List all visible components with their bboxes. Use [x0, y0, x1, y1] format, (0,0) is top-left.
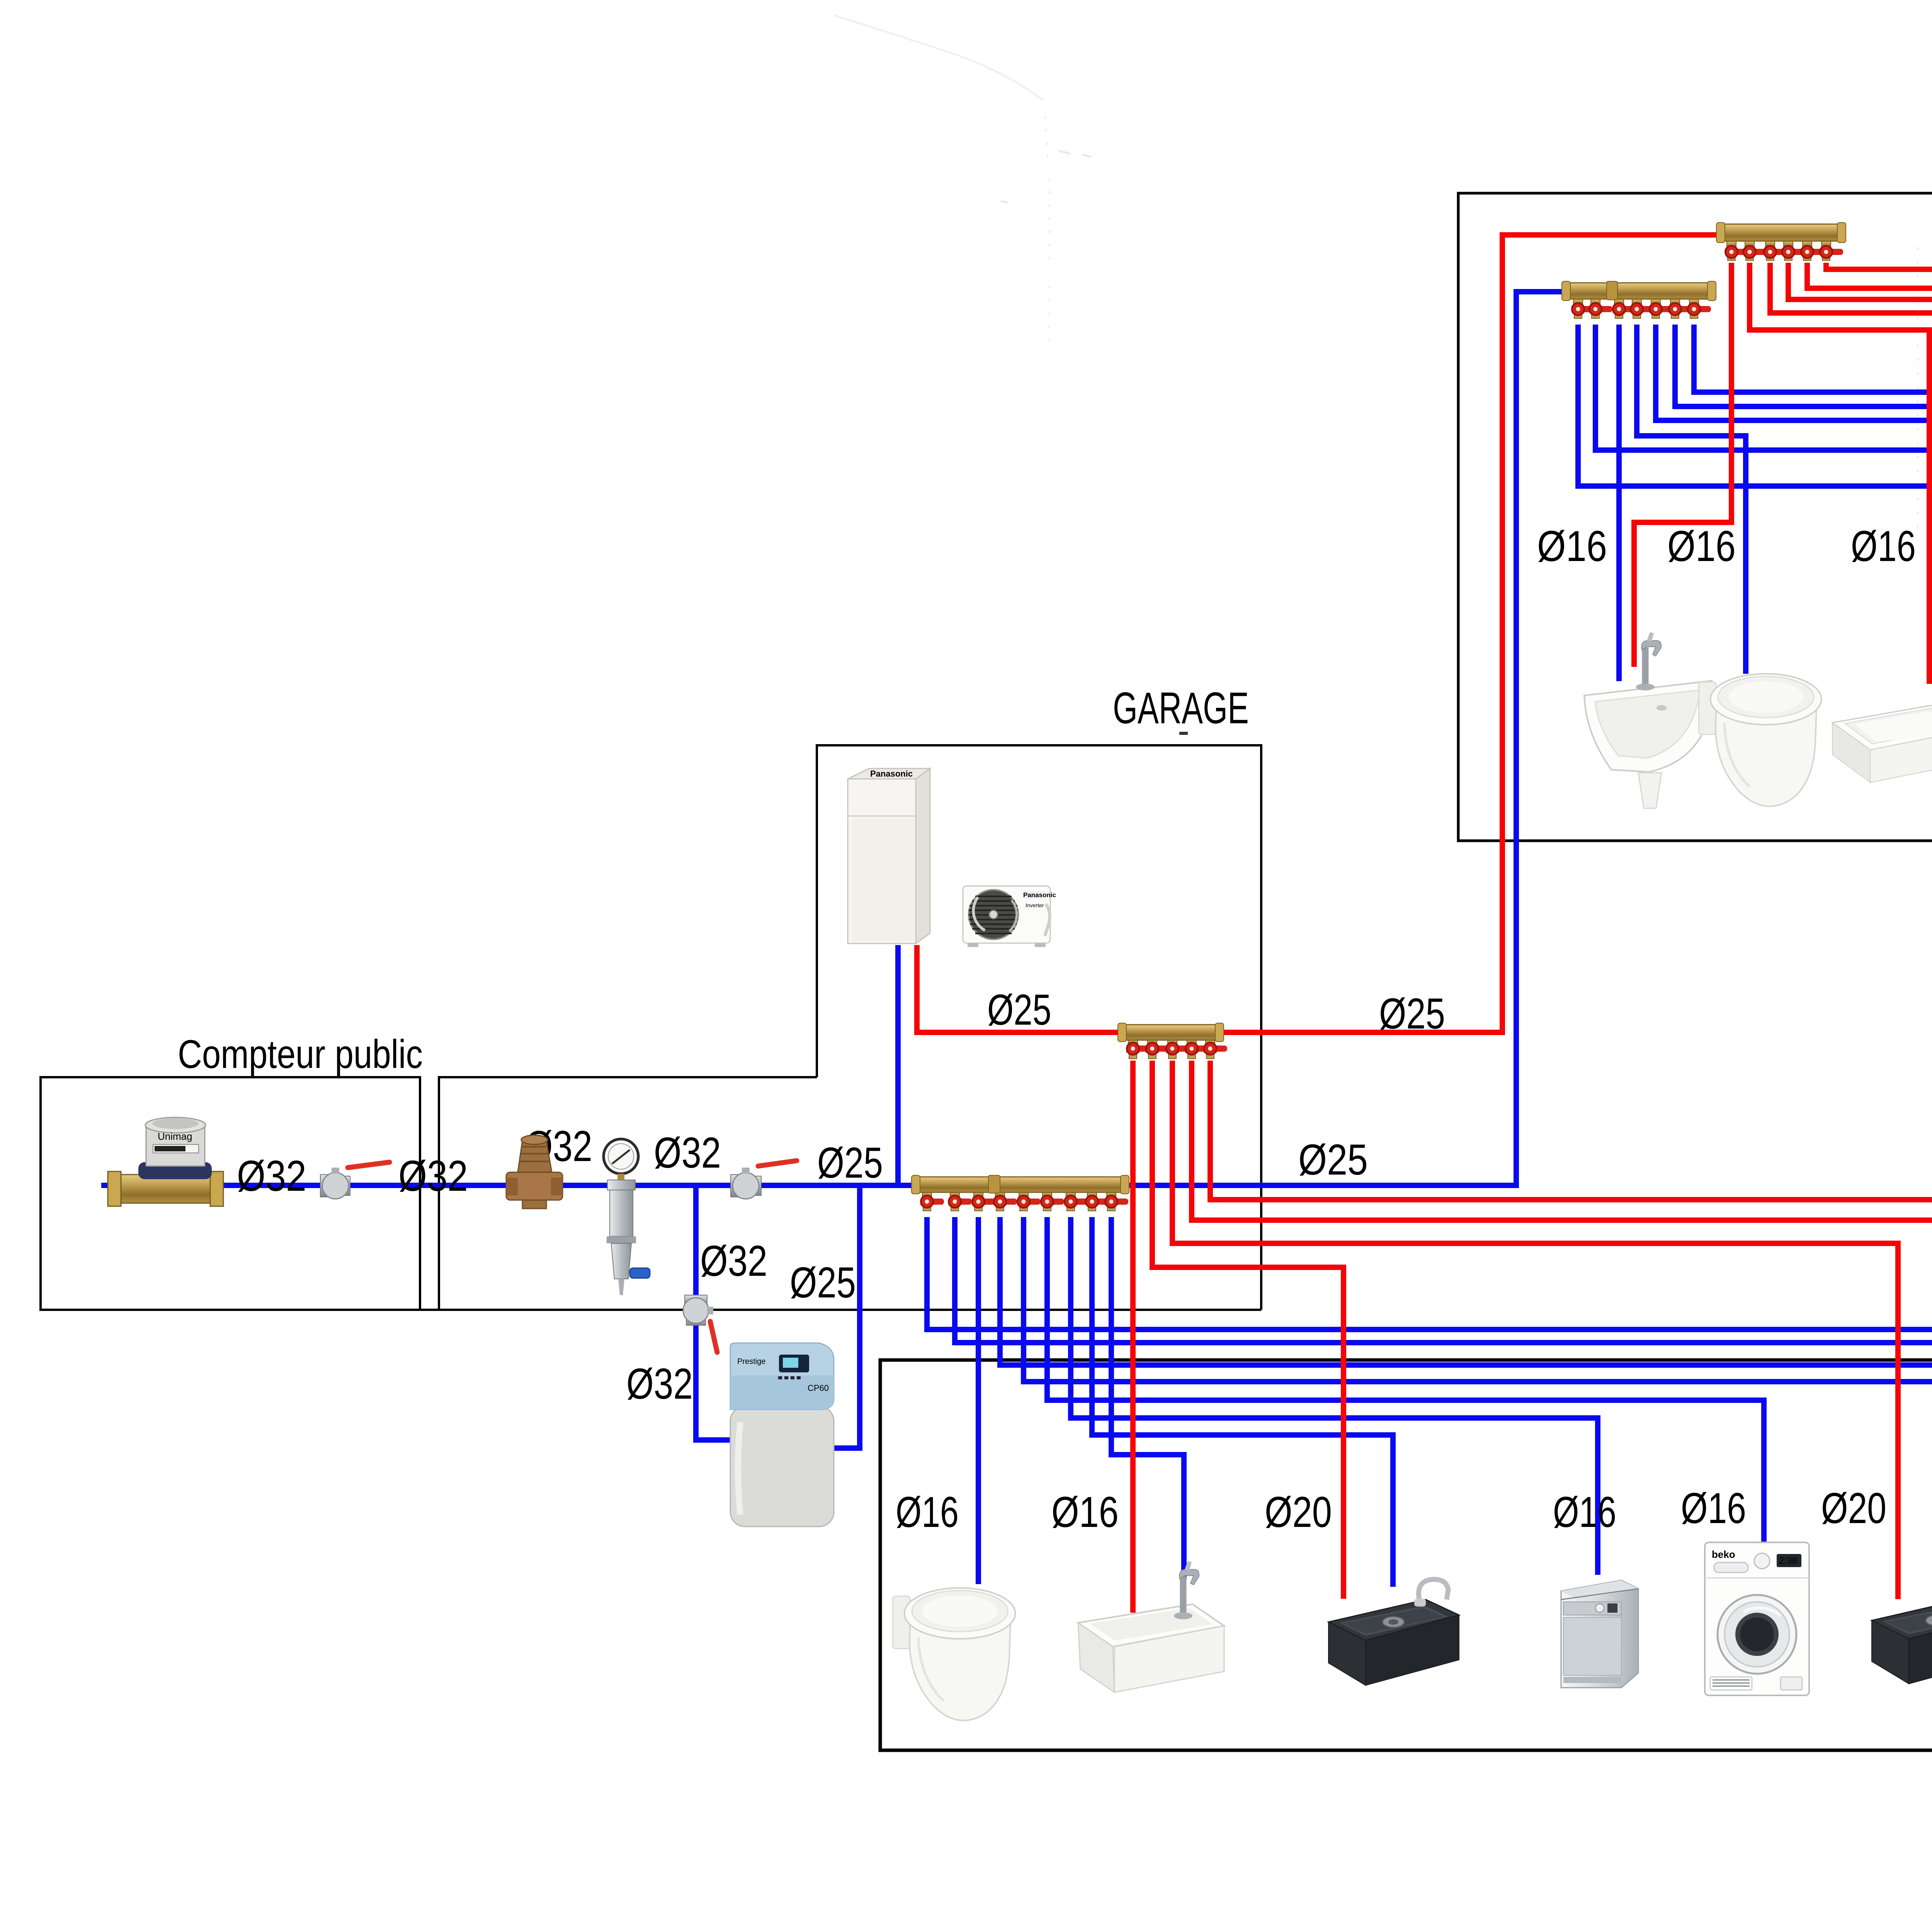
- wire: R-1 red drop 3 to shower F4: [1770, 263, 1932, 605]
- box filtration: [439, 1077, 817, 1310]
- wire: garage manifold drop 5 to RDC dark sink 2: [1024, 1217, 1932, 1599]
- RDC dark sink 1: [1328, 1579, 1459, 1685]
- box R-1: [1458, 193, 1932, 841]
- wire: garage manifold drop 6 to RDC dryer 1: [1047, 1217, 1764, 1542]
- R-1 blue manifold (7 outlets): [1562, 281, 1716, 318]
- wire: garage red drop 3 to RDC dark sink 2: [1172, 1061, 1898, 1599]
- svg-text:Ø16: Ø16: [1851, 522, 1916, 570]
- svg-text:Ø25: Ø25: [790, 1258, 856, 1307]
- wire: R-1 red drop 6 to washbasin F7: [1826, 263, 1932, 665]
- wire: R-1 manifold drop 4 to toilet F2: [1637, 325, 1746, 674]
- svg-text:Ø25: Ø25: [1379, 989, 1445, 1038]
- RDC dishwasher: [1561, 1580, 1638, 1688]
- svg-text:Ø32: Ø32: [626, 1360, 693, 1408]
- wire: cold riser to heat pump: [895, 945, 901, 1185]
- R-1 corner sink F1: [1584, 632, 1712, 808]
- R-1 toilet F2: [1699, 674, 1821, 806]
- box GARAGE: [41, 745, 1261, 1310]
- wire: garage manifold drop 8 to RDC dark sink 1: [1092, 1217, 1393, 1587]
- svg-text:GARAGE: GARAGE: [1113, 683, 1249, 733]
- wire: R-1 manifold drop 3 to corner sink F1: [1616, 325, 1622, 681]
- R-1 washbasin F3: [1832, 693, 1932, 782]
- wire: garage manifold drop 2 to RDC washbasin right: [955, 1217, 1932, 1561]
- wire: garage red drop 4 to RDC washbasin right: [1192, 1061, 1932, 1561]
- wire: R-1 manifold drop 2 to shower F6: [1595, 325, 1932, 581]
- svg-text:Ø16: Ø16: [1667, 522, 1736, 570]
- pressure reducer: [506, 1135, 563, 1209]
- wire: garage manifold drop 4 to RDC dryer 2: [1000, 1217, 1932, 1542]
- svg-text:Ø16: Ø16: [896, 1488, 959, 1536]
- svg-text:Ø20: Ø20: [1265, 1488, 1332, 1536]
- svg-text:Ø25: Ø25: [987, 986, 1051, 1034]
- wire: R-1 manifold drop 6 to shower F4: [1675, 325, 1932, 605]
- svg-text:Ø20: Ø20: [1821, 1484, 1886, 1532]
- wire: R-1 manifold drop 7 to bathtub F5: [1694, 325, 1932, 668]
- garage red manifold (5 outlets): [1118, 1023, 1227, 1059]
- svg-text:Ø16: Ø16: [1051, 1488, 1119, 1536]
- svg-text:Unimag: Unimag: [158, 1131, 192, 1142]
- ball valve 3 (vertical, softener branch): [683, 1295, 717, 1352]
- wire: R-1 red drop 4 to bathtub F5: [1788, 263, 1932, 676]
- faint sketch marks top: [835, 15, 1043, 100]
- svg-text:Inverter: Inverter: [1026, 902, 1044, 908]
- RDC toilet: [893, 1588, 1015, 1720]
- wire: garage manifold drop 3 to RDC toilet: [976, 1217, 981, 1584]
- filter with gauge: [604, 1139, 650, 1295]
- wire: R-1 manifold drop 5 to washbasin F3: [1656, 325, 1932, 680]
- RDC washbasin left: [1078, 1561, 1224, 1692]
- wire: softener outlet back up to main: [830, 1185, 860, 1448]
- heat pump outdoor unit: [963, 886, 1056, 947]
- wire: R-1 red drop 5 to shower F6: [1807, 263, 1932, 605]
- svg-text:Ø32: Ø32: [398, 1152, 468, 1200]
- wire: garage red drop 2 to RDC dark sink 1: [1152, 1061, 1344, 1599]
- water meter: [108, 1117, 223, 1206]
- svg-text:Ø32: Ø32: [237, 1152, 306, 1200]
- svg-text:Compteur public: Compteur public: [178, 1032, 423, 1077]
- svg-text:Ø25: Ø25: [817, 1139, 883, 1187]
- garage blue manifold (9 outlets): [912, 1175, 1129, 1211]
- svg-text:Panasonic: Panasonic: [1023, 891, 1056, 899]
- wire: R-1 red drop 2 to washbasin F3: [1750, 263, 1929, 684]
- box Compteur public: [41, 1077, 420, 1310]
- wire: R-1 red drop 1 to corner sink F1: [1634, 263, 1731, 667]
- box RDC: [880, 1360, 1932, 1750]
- wire: hot from garage manifold right end up to R-1 red manifold: [1219, 235, 1720, 1032]
- wire: garage manifold drop 7 to RDC dishwasher: [1071, 1217, 1598, 1575]
- wire: hot from heat pump to garage red manifold: [917, 945, 1122, 1032]
- wire: garage manifold drop 1 to RDC shower: [927, 1217, 1932, 1476]
- wire: cold main from meter through valves/filter to garage manifold and up to R-1: [101, 292, 1564, 1185]
- svg-text:Ø32: Ø32: [654, 1129, 721, 1177]
- heat pump indoor unit: [848, 768, 930, 944]
- svg-text:CP60: CP60: [808, 1383, 829, 1393]
- ball valve 2: [731, 1161, 797, 1199]
- wire: garage manifold drop 9 to RDC washbasin left: [1111, 1217, 1184, 1579]
- R-1 red manifold (6 outlets): [1716, 223, 1846, 260]
- wire: garage red drop 5 to RDC shower: [1210, 1061, 1932, 1461]
- svg-text:Ø16: Ø16: [1537, 522, 1607, 570]
- water softener: [730, 1343, 834, 1527]
- ball valve 1: [320, 1162, 389, 1199]
- svg-text:Ø16: Ø16: [1681, 1484, 1746, 1532]
- wire: cold branch down to softener inlet valve: [696, 1185, 748, 1440]
- svg-text:Ø25: Ø25: [1298, 1136, 1368, 1184]
- svg-text:Prestige: Prestige: [737, 1357, 765, 1366]
- wire: R-1 manifold drop 1 to washbasin F7: [1578, 325, 1932, 650]
- RDC dark sink 2: [1872, 1578, 1932, 1684]
- wire: garage red drop 1 to RDC washbasin left: [1130, 1061, 1136, 1613]
- RDC dryer 1: [1705, 1542, 1809, 1695]
- svg-text:Ø32: Ø32: [700, 1237, 767, 1285]
- svg-text:Panasonic: Panasonic: [870, 769, 913, 779]
- svg-text:Ø16: Ø16: [1553, 1488, 1616, 1536]
